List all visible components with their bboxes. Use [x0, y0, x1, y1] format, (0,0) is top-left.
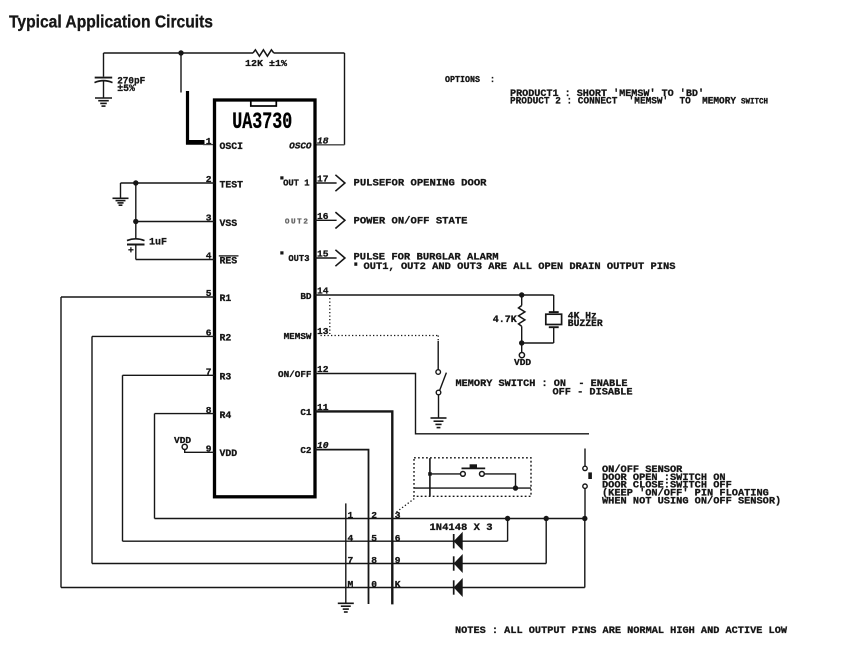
svg-text:OUT3: OUT3: [288, 254, 309, 264]
svg-text:13: 13: [317, 326, 329, 337]
svg-text:17: 17: [317, 174, 329, 185]
svg-text:8: 8: [371, 555, 377, 566]
svg-text:R2: R2: [220, 333, 232, 344]
svg-text:R4: R4: [220, 410, 232, 421]
svg-text:NOTES : ALL OUTPUT PINS ARE NO: NOTES : ALL OUTPUT PINS ARE NORMAL HIGH …: [455, 625, 788, 637]
svg-text:UA3730: UA3730: [232, 109, 292, 136]
svg-text:C2: C2: [300, 445, 312, 456]
svg-text:OUT1, OUT2 AND OUT3 ARE ALL OP: OUT1, OUT2 AND OUT3 ARE ALL OPEN DRAIN O…: [364, 261, 676, 273]
svg-text:VSS: VSS: [220, 218, 238, 229]
svg-text:TEST: TEST: [220, 179, 244, 190]
svg-text:OSCI: OSCI: [220, 141, 244, 152]
svg-text:4: 4: [206, 251, 212, 262]
svg-text:3: 3: [395, 510, 401, 521]
svg-text:VDD: VDD: [514, 357, 531, 368]
svg-text:3: 3: [206, 213, 212, 224]
svg-text:OPTIONS :: OPTIONS :: [445, 74, 495, 85]
svg-text:SWITCH: SWITCH: [741, 98, 768, 106]
svg-text:MEMSW: MEMSW: [284, 331, 312, 342]
svg-text:Typical Application Circuits: Typical Application Circuits: [9, 12, 213, 32]
svg-text:ON/OFF: ON/OFF: [278, 369, 312, 380]
svg-text:7: 7: [206, 367, 212, 378]
svg-text:OSCO: OSCO: [289, 140, 312, 151]
svg-text:VDD: VDD: [220, 448, 238, 459]
svg-text:2: 2: [206, 174, 212, 185]
svg-text:BD: BD: [300, 291, 312, 302]
svg-text:0: 0: [371, 579, 377, 590]
svg-text:4: 4: [348, 533, 354, 544]
svg-text:R3: R3: [220, 372, 232, 383]
svg-text:5: 5: [371, 533, 377, 544]
svg-text:VDD: VDD: [174, 435, 191, 446]
svg-text:OFF - DISABLE: OFF - DISABLE: [553, 387, 633, 399]
svg-text:C1: C1: [300, 407, 312, 418]
svg-text:M: M: [348, 579, 354, 590]
svg-text:±5%: ±5%: [117, 83, 135, 94]
svg-text:14: 14: [317, 286, 329, 297]
svg-text:OUT 1: OUT 1: [283, 179, 309, 189]
svg-text:5: 5: [206, 288, 212, 299]
svg-text:9: 9: [395, 555, 401, 566]
svg-text:7: 7: [348, 555, 354, 566]
svg-text:1: 1: [206, 136, 212, 147]
svg-text:6: 6: [206, 328, 212, 339]
svg-text:PULSEFOR OPENING DOOR: PULSEFOR OPENING DOOR: [354, 177, 488, 189]
svg-text:BUZZER: BUZZER: [568, 318, 603, 329]
svg-text:POWER ON/OFF STATE: POWER ON/OFF STATE: [354, 215, 468, 227]
svg-text:4.7K: 4.7K: [493, 315, 517, 326]
svg-text:WHEN NOT USING ON/OFF SENSOR): WHEN NOT USING ON/OFF SENSOR): [602, 496, 781, 508]
svg-text:RES: RES: [220, 256, 238, 267]
svg-text:PRODUCT 2 : CONNECT 'MEMSW': PRODUCT 2 : CONNECT 'MEMSW' TO MEMORY: [510, 96, 736, 108]
svg-text:R1: R1: [220, 293, 232, 304]
svg-text:OUT2: OUT2: [285, 219, 310, 227]
svg-text:1uF: 1uF: [149, 237, 167, 248]
svg-text:2: 2: [371, 510, 377, 521]
svg-text:1N4148 X 3: 1N4148 X 3: [430, 522, 493, 534]
svg-text:15: 15: [317, 248, 329, 259]
svg-text:18: 18: [317, 135, 329, 146]
svg-text:K: K: [395, 579, 401, 590]
svg-text:6: 6: [395, 533, 401, 544]
svg-text:8: 8: [206, 405, 212, 416]
svg-text:16: 16: [317, 211, 329, 222]
svg-text:9: 9: [206, 443, 212, 454]
svg-text:1: 1: [348, 510, 354, 521]
svg-text:12K ±1%: 12K ±1%: [245, 58, 287, 69]
